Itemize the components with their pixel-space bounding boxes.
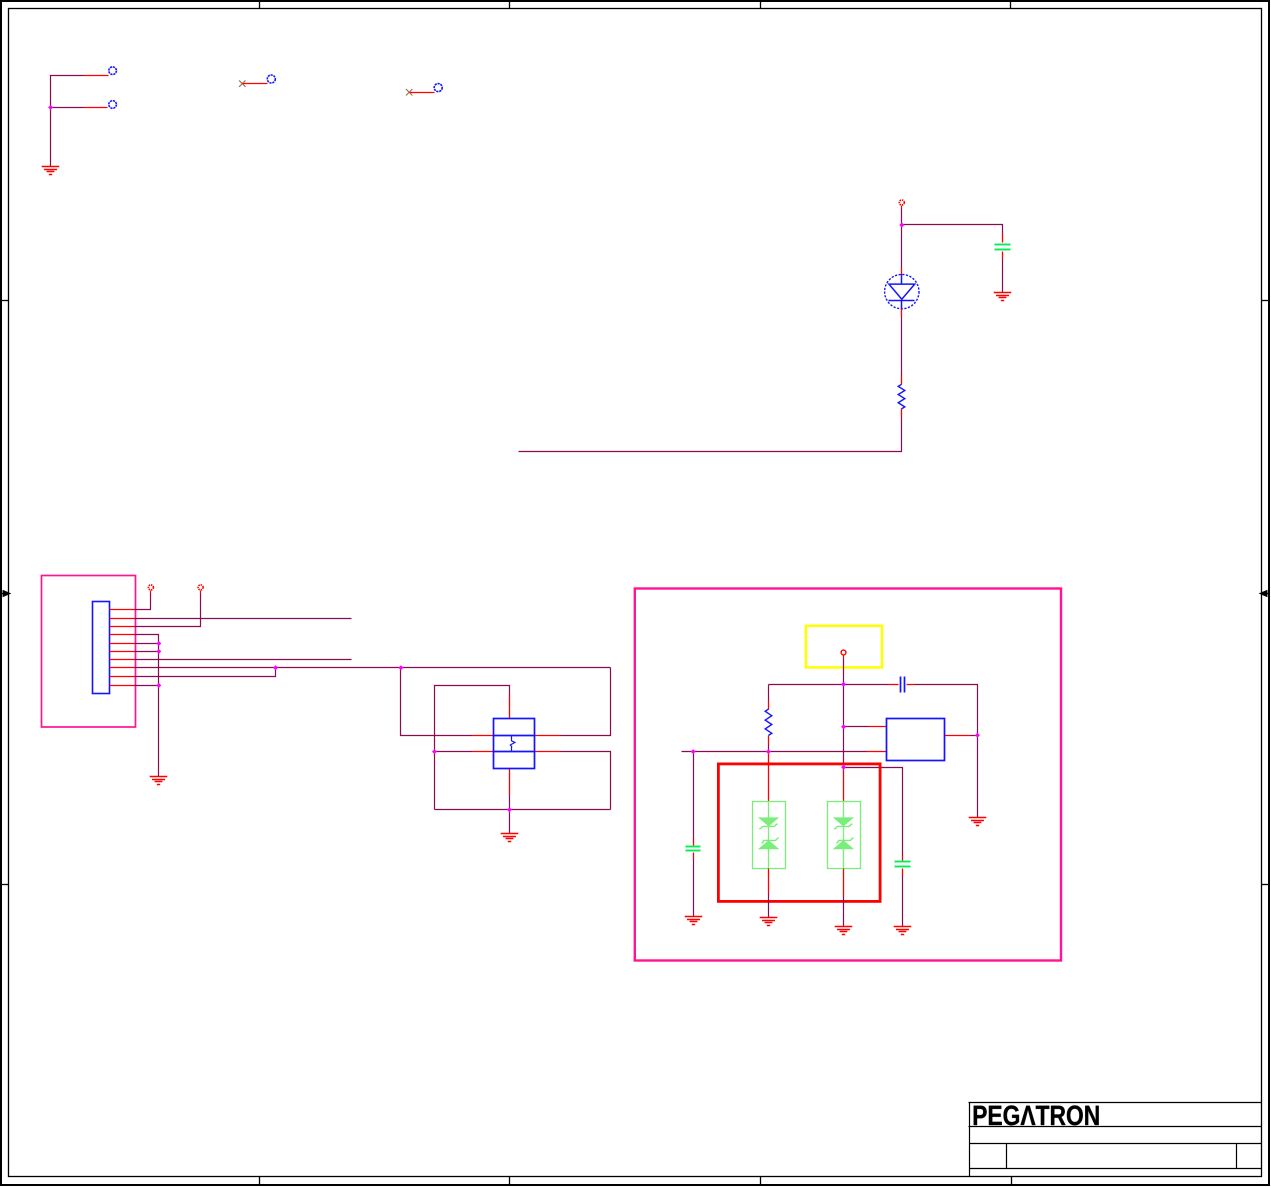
hierarchical block pink (connector page)	[42, 576, 136, 728]
capacitor C1	[995, 245, 1011, 250]
TVS D2 zener top	[759, 818, 778, 829]
junction row751 R2	[766, 749, 771, 754]
red stub IC right pin	[945, 735, 971, 737]
wire branch right cap	[844, 768, 903, 856]
no-connect circle pin A	[109, 67, 117, 75]
red stub below R1	[901, 409, 903, 418]
red stub sw row2 left	[473, 751, 494, 753]
wire switch row1 right	[561, 668, 611, 736]
zone tick bottom 4	[1011, 1177, 1013, 1185]
capacitor C3	[686, 847, 701, 851]
wire nc stub 2	[410, 92, 435, 94]
wire pin2 long	[135, 618, 352, 620]
no-connect circle 1	[267, 75, 275, 83]
no-connect circle 2	[434, 84, 442, 92]
zone tick top 2	[509, 1, 511, 9]
zone tick bottom 2	[509, 1177, 511, 1185]
wire switch row2 left	[435, 751, 473, 753]
connector J1 body	[93, 602, 110, 694]
red stub sw top pin	[509, 695, 511, 719]
TVS D2 zener bottom	[760, 838, 779, 848]
zone tick bottom 1	[259, 1177, 261, 1185]
ground C3	[685, 917, 703, 925]
hierarchical block pink (right page)	[635, 589, 1061, 961]
power pin circle 1	[148, 585, 153, 594]
junction sw row2	[432, 749, 437, 754]
red stub IC left pin2	[867, 751, 887, 753]
wire TVS2 to ground	[843, 897, 845, 927]
red stub above R2	[768, 701, 770, 710]
wire power net top-right	[902, 209, 1003, 234]
junction IC out	[975, 733, 980, 738]
yellow box	[806, 626, 882, 668]
zone tick top 1	[259, 1, 261, 9]
red stub above C4	[902, 856, 904, 861]
ground top-left	[42, 167, 60, 175]
zone arrow left	[1, 591, 10, 597]
red stub below diode	[901, 309, 903, 318]
wire C3 to ground	[693, 859, 695, 917]
wire pin6	[135, 651, 159, 653]
red stub above diode	[901, 268, 903, 276]
TVS D3 box	[828, 802, 861, 869]
switch SW1 body	[494, 719, 535, 769]
power pin circle yellow box	[841, 650, 846, 658]
title block top line	[969, 1102, 1262, 1104]
zone arrow right	[1260, 591, 1268, 597]
TVS D3 inner wire	[843, 802, 845, 869]
red stub below C4	[902, 869, 904, 876]
wire row 751	[682, 751, 867, 753]
junction sw bottom	[507, 807, 512, 812]
ground C4	[894, 927, 912, 935]
title block vline a	[1006, 1144, 1008, 1169]
capacitor C4	[895, 862, 911, 867]
red stub IC left pin1	[869, 726, 887, 728]
wire junction to diode	[901, 225, 903, 268]
zone tick left 2	[1, 884, 9, 886]
wire pin3 to power	[135, 594, 201, 627]
red stub sw row1 right	[535, 735, 561, 737]
ground switch	[501, 834, 519, 842]
TVS D2 inner wire	[768, 802, 770, 869]
ground connector rail	[150, 777, 168, 785]
red stub below C1	[1002, 252, 1004, 259]
diode D1 circle	[885, 274, 919, 308]
wire pin9 jog	[135, 668, 276, 677]
wire yellow box down	[843, 659, 845, 685]
wire IC left pin1	[844, 726, 869, 728]
junction main net	[841, 682, 846, 687]
wire net J1 top-left	[51, 76, 84, 167]
ground TVS1	[760, 918, 778, 926]
wire TVS1 to ground	[768, 894, 770, 918]
red stub above C1	[1002, 234, 1004, 243]
title block line 4	[970, 1168, 1262, 1170]
title block vline b	[1236, 1144, 1238, 1169]
red stub above C3	[693, 839, 695, 846]
red stub left of C2	[889, 684, 899, 686]
ground TVS2	[835, 927, 853, 935]
wire red TVS1 bottom	[768, 869, 770, 894]
wire sw bottom pin	[509, 795, 511, 810]
wire switch row2 right	[561, 752, 611, 810]
junction row751 left	[691, 749, 696, 754]
wire pin7 long	[135, 659, 352, 661]
zone tick right 2	[1262, 884, 1269, 886]
ground C1	[994, 293, 1012, 301]
junction TVS right	[841, 765, 846, 770]
junction top-left	[48, 105, 53, 110]
wire pin5	[135, 643, 159, 645]
zone tick top 4	[1010, 1, 1012, 9]
zone tick bottom 3	[760, 1177, 762, 1185]
switch SW1 actuator	[510, 735, 515, 751]
wire sw to ground	[509, 810, 511, 834]
wire red pin stubs top-left	[84, 76, 109, 108]
capacitor C2	[901, 677, 905, 693]
red component box	[718, 764, 880, 902]
TVS D3 zener top	[834, 818, 853, 829]
TVS D3 zener bottom	[835, 838, 854, 848]
red stub sw bottom pin	[509, 769, 511, 795]
wire pin1 to power	[135, 594, 151, 610]
wire diode to R1	[901, 318, 903, 376]
zone tick top 3	[760, 1, 762, 9]
junction pin5 rail	[156, 641, 161, 646]
wire C4 to ground	[902, 876, 904, 927]
diode D1 symbol	[889, 275, 915, 309]
red stub below R2	[768, 736, 770, 745]
red stub above R1	[901, 376, 903, 385]
wire C1 to ground	[1002, 259, 1004, 293]
junction pin6 rail	[156, 649, 161, 654]
power pin circle top-right	[899, 200, 904, 209]
wire red TVS2 bottom	[843, 869, 845, 897]
wire left cap branch	[693, 752, 695, 839]
ground right	[969, 818, 987, 826]
zone tick left	[1, 300, 9, 302]
junction switch net	[398, 665, 403, 670]
junction pin8-pin9	[273, 665, 278, 670]
wire switch top pin loop	[435, 686, 510, 810]
wire switch bottom	[435, 809, 611, 811]
wire to R2	[768, 685, 770, 701]
no-connect circle pin B	[109, 101, 117, 109]
connector pin stubs	[110, 610, 135, 686]
wire red TVS2 top	[843, 768, 845, 802]
wire R1 to left	[519, 418, 902, 452]
power pin circle 2	[198, 585, 203, 594]
wire pin4 to ground rail	[135, 635, 159, 777]
junction IC pin1	[841, 724, 846, 729]
red stub sw row1 left	[473, 735, 494, 737]
wire C2 to ground right	[915, 685, 978, 818]
title block line 2	[969, 1126, 1262, 1128]
junction pin10 rail	[156, 683, 161, 688]
resistor R2	[765, 709, 772, 735]
IC U1 body	[887, 719, 945, 761]
red stub below C3	[693, 853, 695, 859]
wire nc stub 1	[243, 83, 268, 85]
title block left vline	[969, 1103, 971, 1177]
wire below R2	[768, 745, 770, 752]
no-connect X mark 1	[239, 80, 245, 86]
TVS D2 box	[753, 802, 786, 869]
wire main horizontal	[769, 684, 889, 686]
wire switch row1 left	[401, 668, 473, 736]
wire main vertical	[843, 685, 845, 768]
wire pin10	[135, 685, 159, 687]
red stub sw row2 right	[535, 751, 561, 753]
no-connect X mark 2	[406, 89, 412, 95]
wire pin8 long	[135, 667, 611, 669]
wire red TVS1 top	[768, 752, 770, 802]
title block line 3	[970, 1143, 1262, 1145]
wire IC right pin	[971, 735, 978, 737]
junction power net	[899, 223, 904, 228]
zone tick right	[1262, 300, 1269, 302]
resistor R1	[898, 384, 905, 409]
red stub right of C2	[907, 684, 915, 686]
PEGATRON logo	[974, 1105, 1099, 1125]
